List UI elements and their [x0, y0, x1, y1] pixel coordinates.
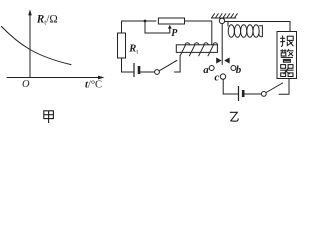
spring — [228, 22, 262, 38]
top wire right loop — [224, 21, 290, 23]
electromagnet core — [176, 45, 217, 53]
battery left loop — [134, 63, 139, 77]
wire alarm to switch — [279, 79, 289, 95]
x-axis — [7, 76, 105, 80]
wiper arrow P — [145, 21, 172, 33]
svg-text:a: a — [203, 64, 209, 76]
wire down to alarm — [289, 22, 291, 32]
wire c to bottom — [222, 79, 224, 94]
wire battery to switch — [140, 71, 154, 73]
switch S1 pivot — [155, 70, 160, 75]
thermistor resistance curve — [2, 27, 72, 65]
contact b terminal — [231, 66, 236, 71]
rheostat R2 box — [158, 18, 184, 24]
wire switch to coil — [175, 56, 181, 72]
alarm text qi — [280, 65, 293, 77]
y-axis — [28, 9, 32, 77]
switch S2 lever — [266, 83, 283, 93]
svg-text:b: b — [236, 64, 242, 76]
node junction dot — [144, 20, 147, 23]
svg-text:O: O — [22, 79, 30, 90]
svg-text:Rt/Ω: Rt/Ω — [36, 13, 58, 26]
contact a terminal — [209, 66, 214, 71]
battery right loop — [239, 86, 244, 101]
alarm box — [277, 32, 297, 79]
caption yi (second) — [230, 112, 239, 121]
alarm text bao — [280, 36, 293, 47]
fixed support with hatching — [211, 13, 238, 18]
svg-text:P: P — [171, 28, 178, 39]
wire Rt to battery — [122, 58, 134, 72]
moving contact right tip — [224, 58, 229, 64]
wire battery to switch right loop — [244, 93, 261, 95]
armature rod — [221, 24, 223, 65]
svg-text:c: c — [214, 72, 219, 84]
alarm text jing — [280, 49, 293, 62]
switch S1 lever — [159, 60, 177, 70]
wire top-left loop — [122, 21, 157, 33]
wire rheostat to right corner — [185, 21, 212, 45]
electromagnet winding — [180, 43, 217, 56]
wire c to battery — [223, 93, 238, 95]
thermistor Rt box — [118, 33, 126, 58]
caption jia (first) — [44, 111, 54, 123]
moving contact left tip — [216, 58, 221, 64]
switch S2 pivot — [261, 92, 266, 97]
contact c terminal — [220, 74, 225, 79]
pivot — [219, 18, 224, 23]
svg-text:t/°C: t/°C — [85, 80, 102, 91]
